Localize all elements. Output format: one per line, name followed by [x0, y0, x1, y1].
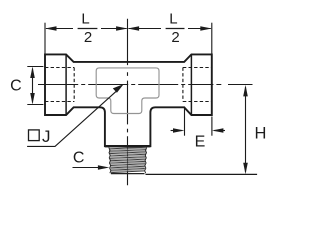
dimension L/2 right: fraction bar — [166, 28, 185, 30]
collar bottom edge — [105, 145, 150, 147]
thread left jagged edge — [109, 148, 111, 174]
svg-text:2: 2 — [171, 29, 179, 46]
vertical centerline — [127, 19, 129, 186]
svg-text:C: C — [73, 150, 85, 167]
thread right jagged edge — [145, 148, 147, 174]
dimension C left: ticks — [27, 67, 43, 105]
dimension L/2 left: dimension line — [46, 28, 127, 30]
svg-text:L: L — [169, 10, 177, 27]
dimension L/2 left: extension line at left cap face — [44, 23, 46, 54]
dimension L/2 right: extension line at right cap face — [211, 23, 213, 54]
leader arrowhead — [113, 84, 124, 93]
horizontal centerline — [38, 84, 253, 86]
label square J — [29, 130, 40, 141]
dimension L/2 right: dimension line — [129, 28, 211, 30]
dimension L/2 left: text — [81, 10, 92, 46]
left cap hidden bore dashed lines — [45, 68, 74, 102]
dimension H: vertical line with arrows — [245, 87, 247, 172]
dimension H: baseline under thread — [146, 173, 258, 175]
svg-text:E: E — [195, 134, 206, 151]
svg-text:C: C — [10, 77, 22, 94]
dimension L/2 left: fraction bar — [78, 28, 98, 30]
right cap left face — [190, 54, 192, 115]
dimension L/2 right: arrowheads — [128, 26, 140, 31]
dimension E: extension lines — [185, 107, 212, 136]
dimension C left: vertical double arrow — [32, 69, 34, 103]
right cap hidden bore dashed lines — [183, 68, 212, 102]
outer profile of tee fitting — [45, 54, 212, 146]
body outline light boss contour (T-shape) — [96, 68, 159, 114]
svg-text:J: J — [42, 127, 51, 146]
dimension L/2 left: arrowheads — [45, 26, 57, 31]
dimension E: arrows pointing inward — [171, 130, 183, 132]
dimension C bottom: arrow to thread — [73, 167, 107, 169]
svg-text:2: 2 — [84, 29, 92, 46]
leader line from J to body center — [27, 88, 120, 146]
left cap right face — [65, 54, 67, 115]
male thread on branch — [109, 147, 147, 172]
svg-text:L: L — [81, 10, 89, 27]
svg-text:H: H — [255, 125, 267, 143]
dimension L/2 right: text — [169, 10, 179, 46]
thread bottom edge — [111, 173, 145, 175]
male thread lighter helix overlay — [109, 148, 147, 171]
